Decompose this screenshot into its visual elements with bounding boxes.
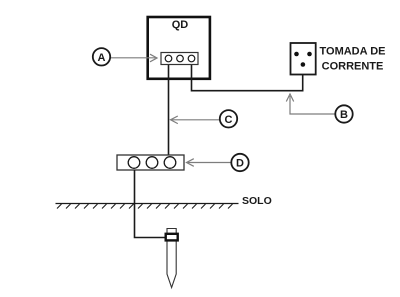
outlet ground dot — [301, 62, 306, 67]
terminal pin 2 — [177, 55, 184, 62]
callout A circle — [93, 48, 110, 65]
callout D arrowhead — [187, 159, 194, 167]
callout B arrowhead — [286, 94, 293, 102]
svg-text:TOMADA DE: TOMADA DE — [320, 46, 386, 58]
outlet pin dot left — [294, 52, 299, 57]
callout C circle — [220, 110, 237, 127]
callout B circle — [335, 105, 352, 122]
busbar hole 1 — [128, 157, 140, 169]
svg-text:SOLO: SOLO — [242, 195, 272, 207]
svg-text:C: C — [225, 114, 233, 126]
terminal block in QD — [161, 53, 198, 65]
callout D circle — [231, 154, 248, 171]
outlet pin dot right — [307, 52, 312, 57]
callout C leader — [172, 119, 220, 121]
wire: QD terminal block right pin to outlet — [192, 62, 303, 91]
wire: QD terminal block left pin down to busbar D — [168, 62, 170, 156]
svg-text:A: A — [98, 52, 106, 64]
busbar hole 3 — [164, 157, 176, 169]
svg-text:CORRENTE: CORRENTE — [322, 61, 384, 73]
terminal pin 3 — [188, 55, 195, 62]
ground busbar rectangle — [117, 155, 184, 170]
terminal pin 1 — [165, 55, 172, 62]
svg-text:D: D — [236, 158, 244, 170]
soil hatching — [57, 204, 233, 209]
rod clamp — [166, 234, 178, 241]
callout A leader — [111, 57, 156, 59]
callout C arrowhead — [171, 116, 178, 124]
svg-text:QD: QD — [172, 19, 189, 31]
outlet box (tomada) — [291, 43, 316, 75]
soil line — [56, 203, 239, 205]
callout B leader — [290, 96, 335, 114]
panel QD box — [148, 17, 210, 79]
callout D leader — [188, 162, 232, 164]
svg-text:B: B — [340, 109, 348, 121]
busbar hole 2 — [146, 157, 158, 169]
wire: busbar to ground rod clamp — [135, 170, 166, 238]
callout A arrowhead — [150, 54, 157, 62]
ground rod — [167, 229, 176, 288]
